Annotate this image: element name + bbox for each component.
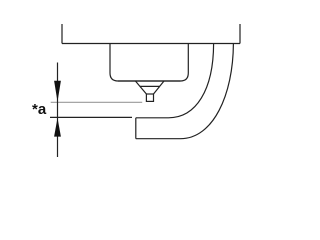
pipe end cap (135, 118, 137, 139)
nozzle funnel cross line (140, 85, 160, 87)
svg-text:*a: *a (32, 101, 47, 118)
nozzle tip square (146, 94, 153, 101)
extension line at pipe top (50, 116, 132, 118)
sensor boss (rounded box) (110, 44, 188, 82)
nozzle funnel right slant (154, 81, 165, 94)
body edge tick left (61, 24, 63, 44)
pipe outer edge with elbow arc (136, 44, 234, 139)
dimension line *a (57, 63, 59, 158)
dimension arrow down (54, 81, 61, 102)
nozzle funnel left slant (135, 81, 146, 94)
sensor boss bottom edge (118, 80, 180, 82)
dimension arrow up (54, 118, 61, 137)
body edge tick right (239, 24, 241, 44)
pipe inner edge with elbow arc (136, 44, 214, 118)
engine body bottom line (62, 43, 240, 45)
extension line at nozzle tip (gray) (51, 101, 143, 103)
